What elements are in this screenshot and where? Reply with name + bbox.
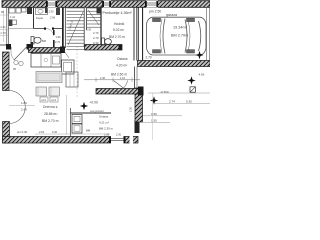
svg-text:1.10: 1.10: [120, 76, 126, 80]
svg-text:Hodnik: Hodnik: [114, 22, 125, 26]
svg-text:1.80: 1.80: [21, 101, 27, 105]
svg-text:4.20 m²: 4.20 m²: [116, 64, 128, 68]
svg-text:BM 2.70 m: BM 2.70 m: [109, 35, 125, 39]
svg-text:4.21 m²: 4.21 m²: [99, 121, 109, 125]
svg-text:BM 2.70m: BM 2.70m: [171, 34, 188, 38]
svg-text:0.30: 0.30: [186, 100, 192, 104]
svg-text:Dnevna s.: Dnevna s.: [43, 105, 58, 109]
svg-text:+0.00: +0.00: [90, 101, 99, 105]
svg-text:5.02 m²: 5.02 m²: [113, 28, 125, 32]
svg-text:2.30: 2.30: [116, 133, 122, 137]
svg-text:Predsoblje 4.36m²: Predsoblje 4.36m²: [103, 11, 133, 15]
svg-text:BM 2.30 m: BM 2.30 m: [99, 127, 114, 131]
svg-text:2.40: 2.40: [21, 108, 27, 112]
svg-text:1.98: 1.98: [104, 133, 110, 137]
svg-text:garaza: garaza: [166, 13, 177, 17]
svg-text:2.40: 2.40: [100, 76, 106, 80]
svg-text:BM: BM: [86, 129, 91, 133]
svg-text:1.70: 1.70: [0, 31, 6, 35]
svg-text:1.30: 1.30: [49, 10, 55, 14]
svg-text:Ostava: Ostava: [99, 115, 109, 119]
svg-text:2.30: 2.30: [129, 106, 133, 112]
svg-text:2.70: 2.70: [55, 40, 61, 44]
svg-text:1.50: 1.50: [151, 118, 157, 122]
svg-text:0.30: 0.30: [93, 41, 99, 45]
svg-text:2.70: 2.70: [93, 36, 99, 40]
svg-text:0.90: 0.90: [151, 112, 157, 116]
svg-text:4.69: 4.69: [199, 73, 205, 77]
svg-text:28.86 m²: 28.86 m²: [44, 112, 58, 116]
svg-text:+0.0: +0.0: [51, 98, 57, 102]
svg-text:2.70: 2.70: [146, 56, 152, 60]
svg-text:1.41: 1.41: [0, 25, 6, 29]
svg-text:BM: BM: [42, 39, 46, 43]
svg-text:ves.prostor: ves.prostor: [90, 109, 104, 113]
svg-text:3.30: 3.30: [86, 28, 92, 32]
svg-text:BM 2.50 m: BM 2.50 m: [111, 73, 127, 77]
svg-text:-0.350: -0.350: [160, 90, 169, 94]
svg-text:Kupat.: Kupat.: [36, 16, 44, 20]
svg-text:2.63: 2.63: [39, 130, 45, 134]
svg-text:pm 0.40: pm 0.40: [17, 130, 28, 134]
svg-text:2.96: 2.96: [50, 16, 56, 20]
svg-text:2.74: 2.74: [169, 100, 175, 104]
svg-text:1.96: 1.96: [56, 35, 62, 39]
svg-text:19.34m²: 19.34m²: [173, 26, 188, 30]
svg-text:BM 2.70 m: BM 2.70 m: [42, 119, 59, 123]
svg-text:2.70: 2.70: [93, 31, 99, 35]
svg-text:+0.0: +0.0: [41, 98, 47, 102]
svg-text:Ostava: Ostava: [117, 57, 128, 61]
svg-text:0.40: 0.40: [52, 130, 58, 134]
svg-text:1.41: 1.41: [10, 15, 16, 19]
svg-text:pm 2.50: pm 2.50: [149, 10, 161, 14]
